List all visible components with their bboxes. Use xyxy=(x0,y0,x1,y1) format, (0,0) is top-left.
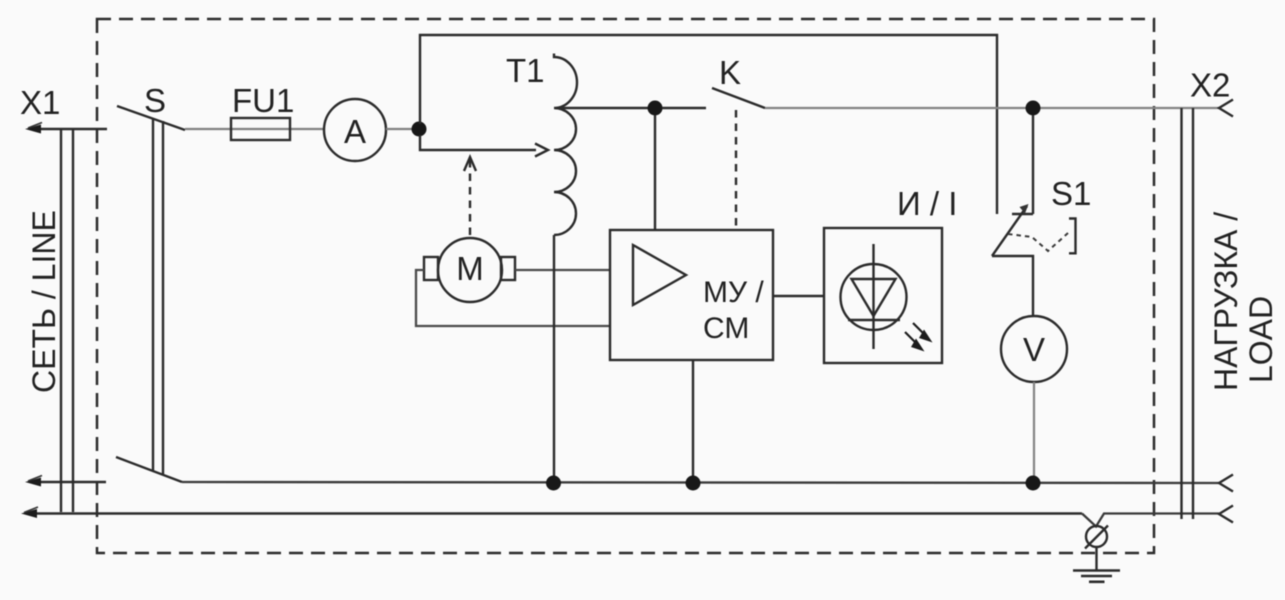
svg-text:МУ /: МУ / xyxy=(703,276,764,309)
svg-text:LOAD: LOAD xyxy=(1243,296,1279,383)
svg-text:М: М xyxy=(456,250,484,287)
svg-text:A: A xyxy=(344,113,366,150)
svg-text:НАГРУЗКА /: НАГРУЗКА / xyxy=(1208,212,1244,391)
svg-text:X2: X2 xyxy=(1190,67,1230,104)
svg-text:V: V xyxy=(1023,331,1045,368)
svg-text:И / I: И / I xyxy=(897,185,957,222)
svg-text:FU1: FU1 xyxy=(232,82,294,119)
svg-text:T1: T1 xyxy=(506,52,545,89)
svg-text:S1: S1 xyxy=(1051,175,1091,212)
svg-text:СЕТЬ / LINE: СЕТЬ / LINE xyxy=(26,210,62,393)
svg-text:S: S xyxy=(144,82,166,119)
svg-text:X1: X1 xyxy=(20,84,60,121)
svg-text:K: K xyxy=(719,54,741,91)
svg-text:СМ: СМ xyxy=(703,312,749,345)
